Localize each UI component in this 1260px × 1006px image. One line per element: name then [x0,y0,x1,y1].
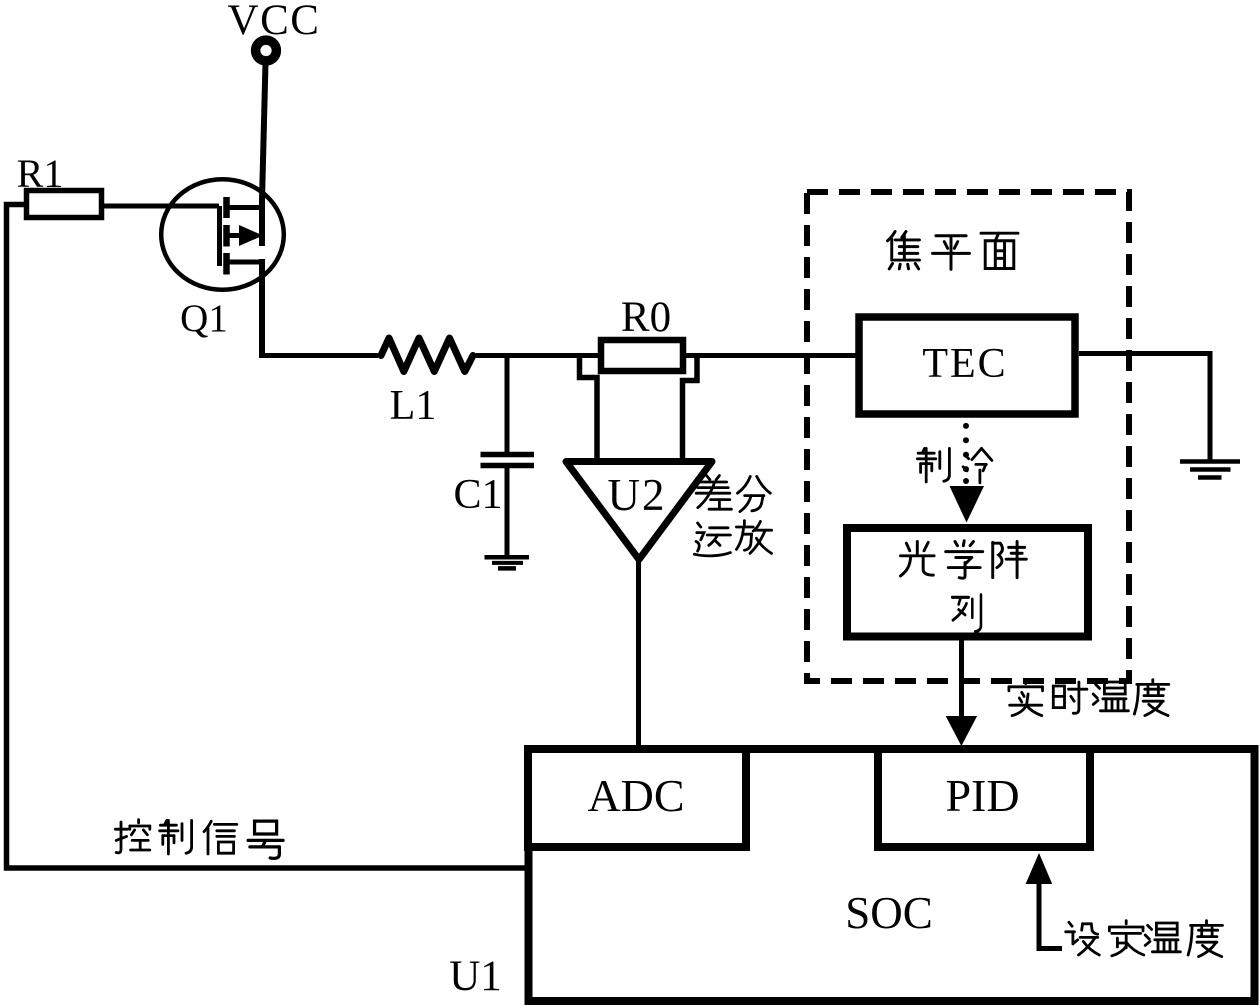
wire R0 to TEC [686,353,856,358]
inductor L1 (zigzag) [381,338,473,372]
wire R0 right tap to U2 input [683,356,698,460]
block ADC [528,749,746,847]
label R1 [17,151,64,196]
wire Q1 source corner to L1 [259,353,378,358]
svg-text:R0: R0 [621,294,671,341]
label Q1 [180,297,228,340]
label 焦平面 [888,232,1018,270]
capacitor C1 [481,455,535,557]
label 制冷 [917,448,992,482]
label 光学阵列 [901,541,1027,632]
block 光学阵列 (optical array) [847,528,1088,637]
dotted arrow TEC to optical array (cooling) [950,423,985,523]
ground (TEC) [1180,462,1240,478]
wire R0 left tap to U2 input [580,356,598,460]
label L1 [390,383,437,429]
block SOC (U1) [529,749,1255,1001]
label 差分运放 [694,476,771,556]
svg-text:PID: PID [945,770,1019,821]
wire L1 to R0 [476,353,599,358]
arrow setpoint into PID (设定温度) [1026,853,1062,949]
block TEC [859,317,1075,414]
svg-text:U1: U1 [449,953,502,1000]
wire R1 to Q1 gate [103,204,219,209]
net label VCC [228,0,321,44]
label U1 [449,953,502,1000]
label C1 [453,472,502,518]
label TEC [922,341,1007,387]
resistor R1 [27,191,102,218]
label ADC [587,770,684,821]
wire VCC to Q1 drain [262,63,266,246]
label 实时温度 [1009,680,1169,716]
wire U2 output to ADC [636,558,641,746]
svg-text:C1: C1 [453,472,502,518]
label U2 [608,470,667,520]
arrow 光学阵列 to PID (real-time temperature) [946,641,977,747]
op-amp U2 (differential amplifier triangle) [566,462,712,560]
block PID [878,749,1090,847]
label 设定温度 [1066,921,1223,957]
node junction at C1 [505,356,510,454]
svg-text:TEC: TEC [922,341,1007,387]
svg-text:SOC: SOC [845,888,933,938]
dashed box 焦平面 (focal plane) [807,192,1129,681]
label PID [945,770,1019,821]
label 控制信号 [115,820,283,859]
label R0 [621,294,671,341]
resistor R0 [601,340,683,371]
wire TEC to ground [1079,354,1210,461]
svg-text:ADC: ADC [587,770,684,821]
svg-text:U2: U2 [608,470,667,520]
svg-text:Q1: Q1 [180,297,228,340]
label SOC [845,888,933,938]
svg-text:L1: L1 [390,383,437,429]
ground (C1) [485,557,530,568]
svg-text:VCC: VCC [228,0,321,44]
VCC terminal circle [256,40,277,61]
transistor Q1 [161,179,284,290]
wire R1 left down to SOC (control signal net) [7,205,528,869]
wire Q1 source down [259,259,265,358]
